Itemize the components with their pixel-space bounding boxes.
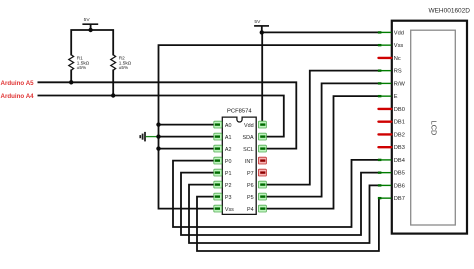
svg-text:Vdd: Vdd bbox=[394, 30, 404, 36]
wire 5V down to U1 Vdd bbox=[261, 32, 263, 124]
svg-text:Nc: Nc bbox=[394, 56, 401, 62]
svg-text:5V: 5V bbox=[84, 17, 91, 23]
wire U1 P3 to LCD1 DB7 bbox=[197, 197, 379, 251]
pin LCD1 R/W (connected leg) bbox=[378, 81, 406, 87]
IC U1 PCF8574 body bbox=[222, 109, 256, 215]
wire R1 bottom lead to Arduino A5 line bbox=[70, 70, 72, 83]
svg-text:DB7: DB7 bbox=[394, 196, 405, 202]
junction 5V rail bbox=[88, 28, 92, 32]
svg-text:DB4: DB4 bbox=[394, 158, 405, 164]
svg-text:WEH001602D: WEH001602D bbox=[428, 7, 470, 14]
svg-text:A0: A0 bbox=[225, 123, 232, 129]
resistor R1 1.5k pull-up (SCL) bbox=[69, 55, 90, 70]
wire U1 P0 to LCD1 DB4 bbox=[173, 160, 378, 227]
wire U1 P1 to LCD1 DB5 bbox=[181, 173, 378, 235]
pin LCD1 E (connected leg) bbox=[378, 94, 398, 100]
svg-text:PCF8574: PCF8574 bbox=[227, 109, 252, 115]
pin U1 P5 (right, terminal square) bbox=[247, 193, 266, 201]
pin LCD1 DB0 (unconnected leg) bbox=[379, 107, 405, 113]
pin LCD1 DB1 (unconnected leg) bbox=[379, 120, 405, 126]
resistor R2 1.5k pull-up (SDA) bbox=[111, 55, 132, 70]
svg-text:P7: P7 bbox=[247, 171, 254, 177]
wire U1 P5 to LCD1 R/W bbox=[262, 83, 378, 196]
pin LCD1 DB4 (connected leg) bbox=[378, 158, 405, 164]
svg-text:DB3: DB3 bbox=[394, 145, 405, 151]
svg-text:R/W: R/W bbox=[394, 81, 406, 87]
wire U1 P2 to LCD1 DB6 bbox=[189, 185, 378, 243]
svg-text:Arduino A4: Arduino A4 bbox=[1, 93, 35, 100]
svg-text:P5: P5 bbox=[247, 195, 254, 201]
pin LCD1 DB3 (unconnected leg) bbox=[379, 145, 405, 151]
pin U1 A1 (left, terminal square) bbox=[214, 133, 232, 141]
pin LCD1 DB5 (connected leg) bbox=[378, 171, 405, 177]
pin U1 P7 (right, terminal square, unconnected) bbox=[247, 169, 266, 177]
pin U1 P3 (left, terminal square) bbox=[214, 193, 232, 201]
svg-text:Vdd: Vdd bbox=[244, 123, 254, 129]
svg-text:DB5: DB5 bbox=[394, 171, 405, 177]
pin LCD1 RS (connected leg) bbox=[378, 69, 402, 75]
wire U1 P4 to LCD1 E bbox=[262, 96, 378, 208]
svg-text:DB2: DB2 bbox=[394, 132, 405, 138]
pin LCD1 DB2 (unconnected leg) bbox=[379, 132, 405, 138]
junction GND / A1 / ground symbol bbox=[156, 134, 160, 138]
pin U1 P2 (left, terminal square) bbox=[214, 181, 232, 189]
svg-text:Arduino A5: Arduino A5 bbox=[1, 80, 35, 87]
junction R1 / A5 bbox=[69, 80, 73, 84]
net label Arduino A5 bbox=[1, 80, 35, 87]
LCD module LCD1 WEH001602D body bbox=[392, 7, 470, 233]
svg-text:P3: P3 bbox=[225, 195, 232, 201]
svg-text:SDA: SDA bbox=[243, 135, 254, 141]
wire Arduino A5 line to SCL pin of U1 bbox=[38, 82, 297, 148]
svg-text:DB0: DB0 bbox=[394, 107, 405, 113]
svg-text:E: E bbox=[394, 94, 398, 100]
wire GND stub to U1 A0 bbox=[159, 124, 218, 126]
svg-text:Vss: Vss bbox=[394, 43, 404, 49]
pin LCD1 Nc (unconnected leg) bbox=[379, 56, 401, 62]
wire 5V rail to R1 and R2 tops bbox=[71, 30, 113, 55]
pin U1 SDA (right, terminal square) bbox=[243, 133, 267, 141]
wire U1 P6 to LCD1 RS bbox=[262, 71, 378, 185]
pin LCD1 Vdd (connected leg) bbox=[378, 30, 404, 36]
power supply 5V (PWR2, above U1) bbox=[254, 19, 269, 33]
svg-text:P6: P6 bbox=[247, 183, 254, 189]
wire 5V to LCD1 Vdd bbox=[262, 31, 378, 33]
pin LCD1 DB7 (connected leg) bbox=[378, 196, 405, 202]
wire GND stub to U1 A2 bbox=[159, 148, 218, 150]
svg-text:RS: RS bbox=[394, 69, 402, 75]
wire R2 bottom lead to Arduino A4 line bbox=[112, 70, 114, 96]
svg-text:SCL: SCL bbox=[243, 147, 254, 153]
svg-text:DB1: DB1 bbox=[394, 120, 405, 126]
junction GND / A0 bbox=[156, 122, 160, 126]
wire Arduino A4 line to SDA pin of U1 bbox=[38, 96, 284, 137]
svg-text:INT: INT bbox=[245, 159, 254, 165]
svg-text:A1: A1 bbox=[225, 135, 232, 141]
svg-text:Vss: Vss bbox=[225, 207, 234, 213]
pin U1 P1 (left, terminal square) bbox=[214, 169, 232, 177]
net label Arduino A4 bbox=[1, 93, 35, 100]
pin LCD1 Vss (connected leg) bbox=[378, 43, 404, 49]
svg-text:5V: 5V bbox=[254, 19, 261, 25]
svg-text:P2: P2 bbox=[225, 183, 232, 189]
pin U1 P0 (left, terminal square) bbox=[214, 157, 232, 165]
wire GND stub to U1 A1 bbox=[159, 136, 218, 138]
svg-text:DB6: DB6 bbox=[394, 183, 405, 189]
svg-text:±5%: ±5% bbox=[77, 65, 86, 70]
pin U1 Vss (left, terminal square) bbox=[214, 205, 234, 213]
pin U1 A2 (left, terminal square) bbox=[214, 145, 232, 153]
junction GND / A2 bbox=[156, 146, 160, 150]
pin U1 INT (right, terminal square, unconnected) bbox=[245, 157, 266, 165]
pin U1 Vdd (right, terminal square) bbox=[244, 121, 266, 129]
pin LCD1 DB6 (connected leg) bbox=[378, 183, 405, 189]
ground symbol GND bbox=[139, 132, 158, 142]
pin U1 A0 (left, terminal square) bbox=[214, 121, 232, 129]
svg-text:P4: P4 bbox=[247, 207, 254, 213]
svg-text:LCD: LCD bbox=[430, 121, 439, 136]
svg-text:±5%: ±5% bbox=[119, 65, 128, 70]
junction 5V node bbox=[260, 30, 264, 34]
wire GND bus: to LCD1 Vss, down to U1 Vss bbox=[159, 45, 379, 208]
pin U1 SCL (right, terminal square) bbox=[243, 145, 266, 153]
svg-text:P0: P0 bbox=[225, 159, 232, 165]
pin U1 P4 (right, terminal square) bbox=[247, 205, 266, 213]
svg-text:P1: P1 bbox=[225, 171, 232, 177]
pin U1 P6 (right, terminal square) bbox=[247, 181, 266, 189]
power supply 5V (PWR1, above pull-up resistors) bbox=[82, 17, 98, 30]
svg-text:A2: A2 bbox=[225, 147, 232, 153]
junction R2 / A4 bbox=[111, 93, 115, 97]
